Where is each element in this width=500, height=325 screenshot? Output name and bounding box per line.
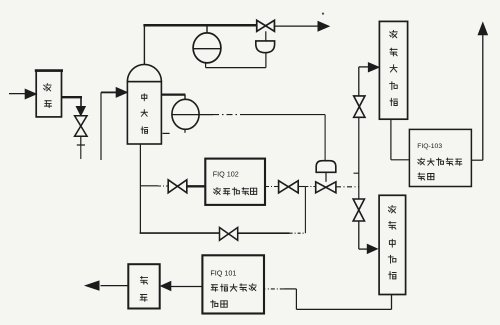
wire: pump bottom stem — [184, 129, 186, 133]
wire: CV2 to header dash-dot — [336, 186, 359, 188]
vessel: ammonia user box — [128, 264, 159, 308]
valve V6: header lower valve — [353, 199, 364, 221]
label: FIQ101 line2 char 4 — [240, 284, 247, 291]
label: user box char 2 — [140, 295, 147, 302]
label: T1 char 4 — [390, 82, 398, 90]
svg-text:FIQ 101: FIQ 101 — [210, 269, 236, 278]
wire: P1 signal solid run — [244, 115, 325, 161]
wire: branch to FIQ102 valve — [140, 185, 168, 187]
label: FIQ103 line2 char 5 — [455, 159, 462, 165]
label: FIQ103 line2 char 2 — [427, 158, 434, 165]
wire: settling box outlet — [62, 96, 83, 106]
label: settling tank char 2 — [44, 101, 51, 108]
wire: product vapor out — [275, 25, 322, 27]
label: T2 char 5 — [389, 272, 396, 279]
label: user box char 1 — [140, 276, 147, 284]
wire: instrument FI1 stem — [206, 25, 208, 33]
wire: FIQ103 vent riser — [471, 35, 482, 160]
label: FIQ102 line2 char 2 — [223, 189, 230, 195]
vessel T2: liquid-ammonia mid tank — [379, 195, 406, 294]
wire: junction riser — [304, 187, 306, 233]
vessel U1: column body — [127, 64, 161, 144]
wire: T1 to FIQ103 — [391, 119, 410, 160]
label: T2 char 4 — [388, 255, 396, 263]
valve CV1: control valve (top line) — [257, 20, 275, 31]
label: FIQ101 line2 char 3 — [230, 284, 237, 291]
actuator: CV2 diaphragm dome — [316, 161, 336, 173]
wire: header elbow to big tank — [359, 67, 369, 96]
label: FIQ103 line3 char 1 — [418, 173, 425, 180]
label: T1 char 2 — [390, 48, 397, 56]
label: FIQ103 line3 char 2 — [428, 173, 434, 179]
label: FIQ101 line2 char 5 — [249, 284, 256, 291]
wire: column lower nozzle tick — [163, 132, 170, 134]
label: column char 3 — [141, 127, 148, 134]
valve V1 drain (vertical) — [75, 116, 88, 137]
label: FIQ102 line2 char 3 — [232, 188, 239, 195]
valve V5: header upper valve — [354, 96, 365, 117]
wire: P1 signal dash-dot — [213, 114, 244, 116]
wire: FI1 signal down — [205, 63, 207, 68]
arrow: into mid ammonia tank — [367, 244, 377, 253]
label: FIQ101 line3 char 2 — [221, 301, 227, 307]
vessel T1: liquid-ammonia big tank — [379, 21, 407, 119]
label: FIQ 102 — [213, 170, 239, 179]
wire: link to CV2 dash-dot — [298, 186, 315, 188]
instrument P1: circulation pump circle — [172, 99, 213, 129]
label: FIQ101 line2 char 2 — [221, 284, 228, 291]
label: FIQ102 line2 char 4 — [242, 188, 249, 195]
meter FIQ101: box — [202, 255, 264, 313]
wire: header mid run — [358, 117, 360, 199]
wire: column bottom outlet — [139, 144, 141, 233]
wire: column overhead stem — [143, 25, 145, 65]
valve V2: FIQ102 inlet valve — [168, 180, 187, 193]
wire: header lower elbow — [359, 221, 368, 249]
instrument FI1: flow indicator circle — [193, 33, 221, 63]
wire: column side nozzle — [161, 95, 185, 100]
wire: bottoms run right — [238, 232, 306, 234]
wire: T2 bottom to FIQ101 — [266, 289, 392, 310]
svg-text:FIQ-103: FIQ-103 — [417, 143, 442, 150]
wire: valve to FIQ102 box — [187, 185, 206, 187]
arrow: down into drain valve — [76, 107, 85, 116]
wire: CV1 actuator stem — [265, 53, 267, 68]
wire: FI1 signal to CV1 actuator — [206, 67, 266, 69]
arrow: feed into settling box — [25, 89, 36, 99]
label: FIQ 101 — [210, 269, 236, 278]
label: T2 char 1 — [388, 206, 396, 213]
label: FIQ101 line3 char 1 — [211, 300, 218, 308]
valve CV2: control valve — [316, 182, 336, 193]
label: T1 char 1 — [390, 30, 398, 37]
label: column char 2 — [141, 110, 147, 117]
label: T2 char 2 — [389, 221, 396, 229]
meter FIQ102: box — [205, 159, 265, 205]
node: header junction tick — [354, 172, 359, 174]
wire: column bottoms run — [140, 232, 220, 234]
arrow: product out left — [86, 281, 100, 290]
label: FIQ103 line2 char 4 — [446, 158, 453, 165]
wire: drain valve tail — [77, 136, 85, 159]
wire: FIQ102 outlet dash-dot — [265, 186, 279, 188]
label: T1 char 5 — [390, 98, 397, 105]
label: FIQ-103 — [417, 143, 442, 150]
valve V3: FIQ102 outlet valve — [279, 181, 299, 193]
actuator: CV1 diaphragm bowl — [256, 41, 275, 53]
label: FIQ102 line2 char 5 — [250, 188, 256, 194]
arrow: into user box — [161, 282, 171, 291]
wire: CV1 stem — [265, 31, 267, 41]
label: FIQ103 line2 char 3 — [437, 158, 444, 165]
wire: raw feed line — [9, 93, 26, 95]
label: T1 char 3 — [390, 65, 397, 72]
vessel: settling tank box — [35, 71, 63, 117]
wire: CV2 stem — [325, 172, 327, 182]
meter FIQ103: box — [409, 129, 471, 186]
valve V4: bottoms valve — [220, 228, 238, 241]
wire: FIQ101 to user box — [171, 286, 203, 288]
label: column char 1 — [142, 94, 147, 101]
wire: overhead vapor line — [143, 24, 256, 27]
arrow: into big ammonia tank — [368, 63, 379, 72]
label: T2 char 3 — [389, 239, 395, 247]
wire: column feed riser — [101, 92, 116, 160]
arrow: vapor out right — [318, 22, 329, 32]
label: FIQ102 line2 char 1 — [214, 188, 221, 195]
svg-text:FIQ 102: FIQ 102 — [213, 170, 239, 179]
arrow: vent up — [478, 23, 487, 35]
node: scan speck near vapor line — [322, 13, 324, 15]
label: FIQ101 line2 char 1 — [211, 285, 218, 292]
arrow: feed into column — [116, 88, 127, 98]
label: FIQ103 line2 char 1 — [418, 158, 425, 165]
label: settling tank char 1 — [44, 84, 52, 91]
wire: user box outlet — [101, 285, 129, 287]
